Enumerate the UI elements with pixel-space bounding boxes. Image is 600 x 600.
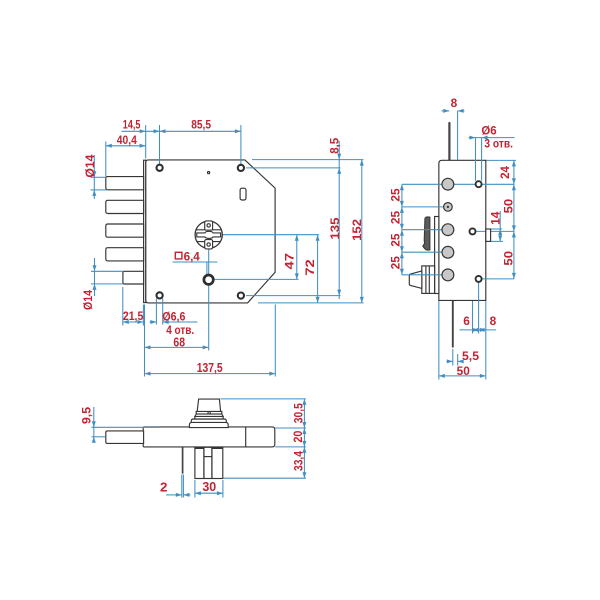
svg-text:9,5: 9,5	[82, 406, 94, 424]
dim line 40,4	[106, 145, 146, 147]
svg-text:50: 50	[457, 364, 471, 378]
side view body	[439, 160, 486, 300]
dim line 8,5 + 135	[338, 141, 340, 299]
dim line dia14 bottom	[94, 258, 96, 296]
screw hole top-right	[238, 165, 244, 171]
latch nose	[409, 271, 422, 289]
svg-text:30,5: 30,5	[294, 403, 306, 424]
knob cap	[197, 399, 220, 411]
right column ext	[487, 159, 517, 161]
slot opening	[240, 188, 246, 200]
dim 68 and 137,5	[144, 305, 146, 377]
svg-text:137,5: 137,5	[197, 361, 223, 375]
cylinder top tab	[205, 221, 213, 230]
FRONT VIEW red labels	[83, 120, 364, 375]
label square 6,4	[175, 252, 182, 259]
svg-text:8: 8	[490, 316, 497, 328]
dia6 leader	[475, 138, 477, 181]
svg-text:5,5: 5,5	[462, 351, 480, 363]
screw hole side top	[476, 181, 482, 187]
svg-text:Ø14: Ø14	[83, 289, 95, 310]
pin circle 2	[444, 203, 453, 212]
dim line 72	[317, 235, 319, 303]
leader square 6,4	[173, 261, 218, 263]
bottom view rod	[182, 447, 184, 473]
svg-text:135: 135	[330, 217, 342, 240]
svg-text:Ø6,6: Ø6,6	[162, 312, 185, 324]
side view bottom rod	[452, 300, 454, 346]
right side ext lines	[252, 159, 364, 161]
screw hole top-left	[157, 165, 163, 171]
deadbolt 2	[106, 200, 144, 213]
latch collar	[422, 266, 435, 294]
bolt end circle 5	[442, 269, 454, 281]
svg-text:14: 14	[491, 211, 503, 225]
ext line body left top	[145, 125, 147, 159]
dim line 47	[296, 235, 298, 280]
svg-text:25: 25	[391, 233, 403, 247]
ext line screw hole left	[159, 125, 161, 165]
knob flare	[195, 414, 223, 417]
bolt end circle 3	[442, 224, 454, 236]
svg-text:40,4: 40,4	[117, 135, 138, 147]
cylinder outer circle	[195, 221, 222, 248]
bolt end circle 4	[442, 246, 454, 258]
svg-text:Ø14: Ø14	[85, 154, 97, 178]
SIDE VIEW red labels	[391, 98, 516, 378]
svg-text:47: 47	[284, 253, 296, 270]
lock body (front view)	[146, 160, 275, 303]
svg-text:68: 68	[173, 335, 185, 349]
knob base	[189, 422, 228, 427]
SIDE VIEW blue dimension lines	[402, 111, 516, 380]
BOTTOM VIEW red labels	[82, 403, 306, 495]
svg-text:6,4: 6,4	[184, 252, 201, 264]
svg-text:30: 30	[202, 480, 216, 494]
svg-text:25: 25	[391, 256, 403, 270]
svg-text:25: 25	[391, 210, 403, 224]
svg-text:152: 152	[352, 219, 364, 241]
ext line screw hole right	[240, 125, 242, 165]
lock faceplate strip (front view)	[144, 160, 146, 302]
svg-text:24: 24	[500, 166, 512, 179]
svg-text:21,5: 21,5	[123, 311, 144, 323]
svg-text:20: 20	[293, 431, 305, 443]
screw hole bottom-right	[238, 293, 244, 299]
SIDE VIEW arrows	[400, 109, 516, 378]
FRONT VIEW arrows	[92, 129, 364, 375]
screw hole side bottom	[476, 276, 482, 282]
cylinder chords	[196, 229, 221, 231]
dim line 152	[361, 160, 363, 303]
plate seam	[245, 427, 247, 447]
svg-text:14,5: 14,5	[123, 120, 141, 132]
side faceplate band	[435, 217, 439, 294]
cylinder bottom tab	[205, 240, 213, 249]
svg-text:2: 2	[160, 481, 167, 495]
svg-text:Ø6: Ø6	[481, 125, 496, 137]
fixing hole dia 6,6	[204, 275, 213, 284]
dim 21,5	[122, 287, 124, 326]
ext line bolt tip	[105, 142, 107, 177]
svg-text:33,4: 33,4	[294, 450, 306, 471]
cylinder housing below	[195, 447, 223, 478]
knob collar band	[196, 411, 222, 414]
screw hole bottom-left	[157, 292, 163, 298]
bottom view bolt	[106, 431, 144, 444]
bottom dims	[438, 301, 440, 380]
BOTTOM VIEW blue dimension lines	[92, 399, 306, 498]
dim 2 rod	[181, 475, 183, 498]
svg-text:85,5: 85,5	[191, 120, 211, 132]
FRONT VIEW blue dimension lines	[91, 125, 364, 377]
dim 14 tab	[491, 228, 502, 230]
deadbolt 4	[106, 248, 144, 261]
knob flare band	[195, 416, 223, 419]
dim line 14,5 + 85,5	[122, 130, 241, 132]
svg-text:25: 25	[391, 188, 403, 202]
dim 30	[194, 480, 196, 498]
bolt cam blade	[423, 217, 430, 250]
bottom view plate bar	[143, 427, 275, 447]
side view top rod	[448, 123, 450, 160]
svg-text:8,5: 8,5	[329, 137, 341, 154]
side tab	[486, 229, 491, 241]
dim line 24/50/50	[513, 160, 515, 279]
small pin dot	[208, 172, 210, 174]
svg-text:72: 72	[305, 259, 317, 276]
BOTTOM VIEW arrows	[92, 399, 307, 497]
svg-text:3 отв.: 3 отв.	[484, 138, 513, 150]
screw hole side middle	[470, 228, 476, 234]
knob step	[191, 419, 226, 422]
dim 9,5	[92, 426, 161, 428]
bolt end circle 1	[442, 178, 454, 190]
dim dia6,6	[155, 299, 157, 325]
svg-text:50: 50	[501, 251, 515, 266]
svg-text:8: 8	[451, 98, 458, 110]
deadbolt 1	[106, 177, 144, 190]
svg-text:6: 6	[463, 316, 470, 328]
right column ext	[221, 398, 306, 400]
svg-text:50: 50	[501, 198, 515, 213]
dim line dia14 top	[93, 155, 95, 199]
deadbolt 3	[106, 224, 144, 237]
dim line 25 chain	[401, 184, 403, 274]
dim 8 top	[457, 111, 459, 160]
latch bolt	[123, 271, 144, 284]
keyhole	[197, 231, 221, 238]
dim line 30,5/20/33,4	[303, 399, 305, 478]
